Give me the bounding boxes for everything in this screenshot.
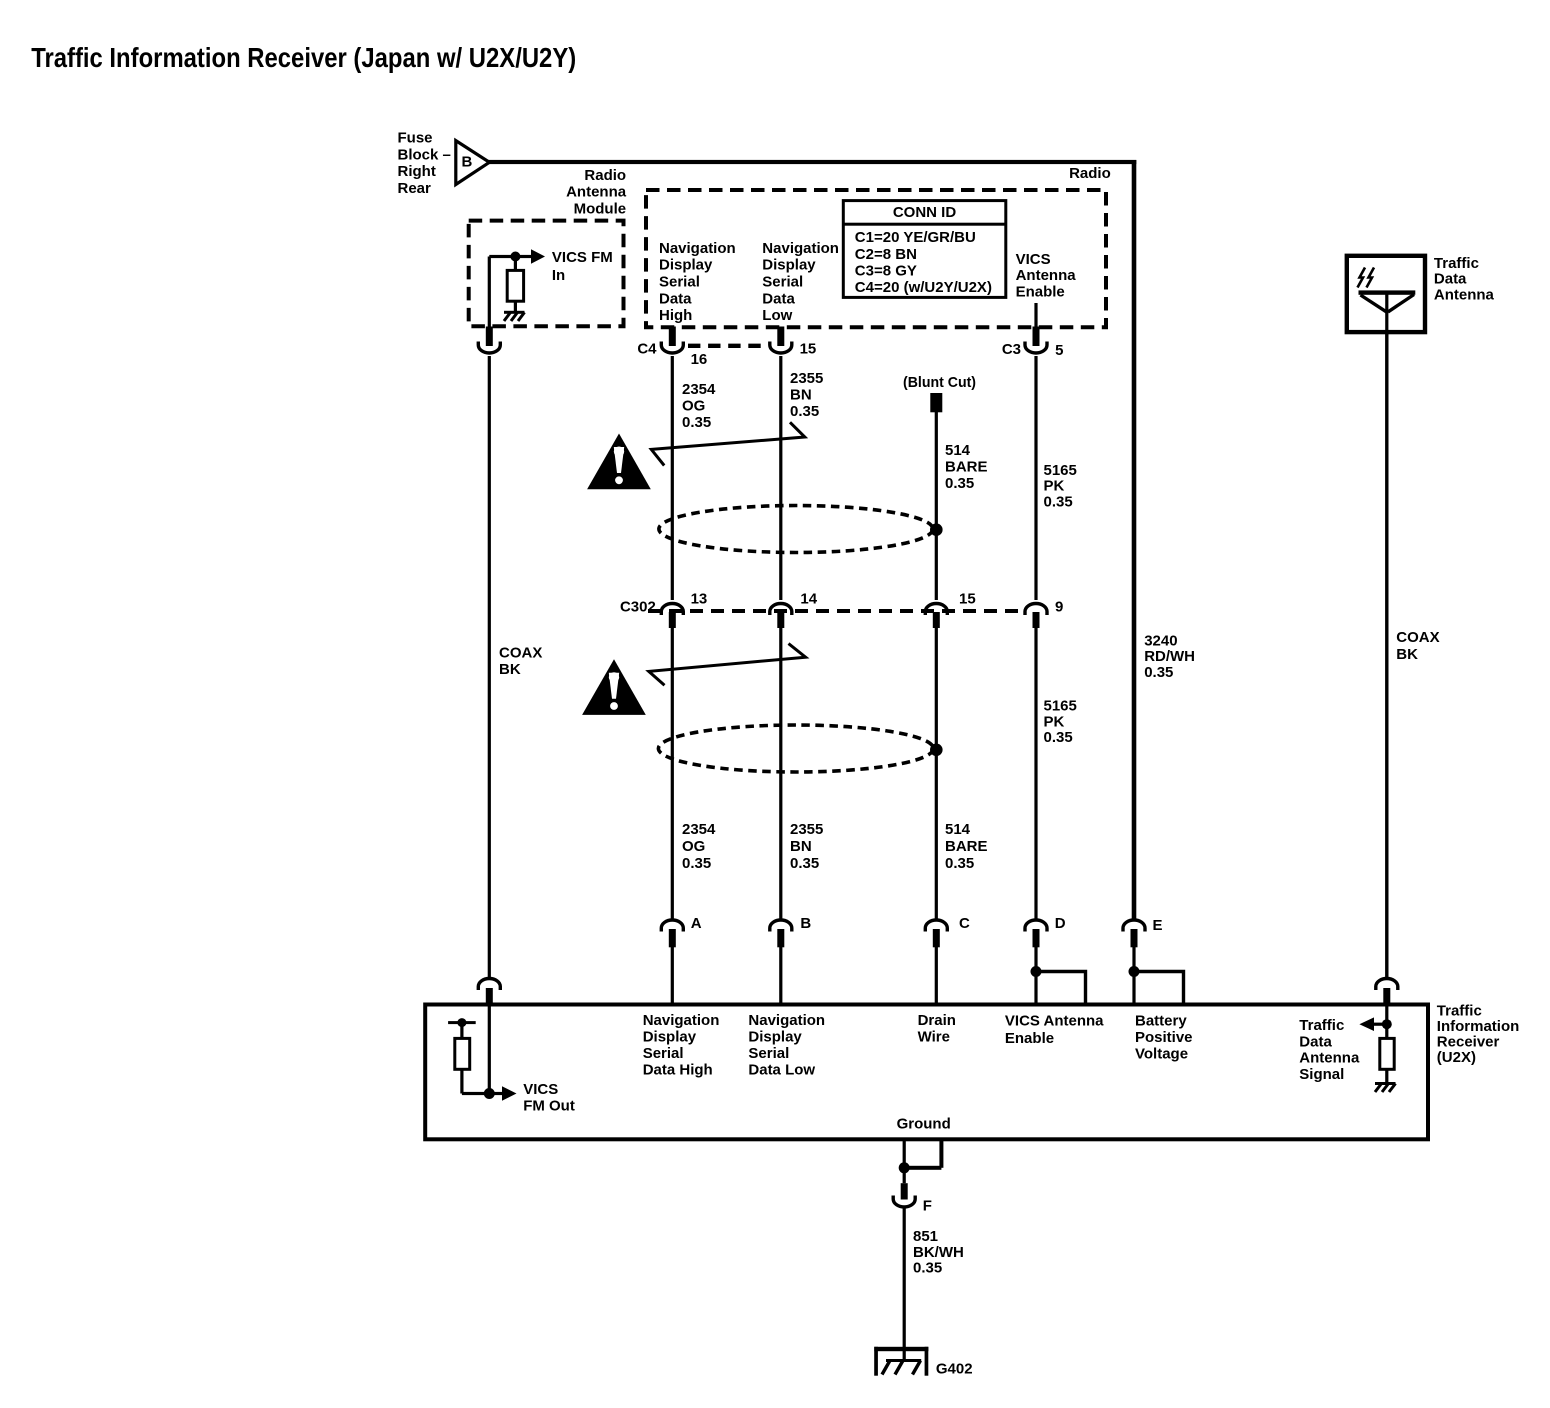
svg-text:BK: BK: [1396, 646, 1418, 663]
svg-text:Enable: Enable: [1005, 1030, 1054, 1047]
svg-text:VICS Antenna: VICS Antenna: [1005, 1013, 1104, 1030]
svg-text:Data: Data: [1299, 1033, 1332, 1050]
svg-text:Display: Display: [762, 257, 816, 274]
svg-text:Radio: Radio: [1069, 165, 1111, 182]
svg-text:Serial: Serial: [659, 274, 700, 291]
svg-text:Antenna: Antenna: [566, 184, 627, 201]
svg-text:15: 15: [959, 590, 976, 607]
svg-text:RD/WH: RD/WH: [1144, 648, 1195, 665]
svg-text:COAX: COAX: [1396, 629, 1439, 646]
svg-text:FM Out: FM Out: [523, 1097, 575, 1114]
svg-text:Traffic: Traffic: [1299, 1017, 1344, 1034]
svg-text:(Blunt Cut): (Blunt Cut): [903, 374, 976, 391]
svg-text:Data Low: Data Low: [748, 1062, 815, 1079]
svg-text:Voltage: Voltage: [1135, 1046, 1188, 1063]
svg-text:16: 16: [691, 351, 708, 368]
svg-text:Signal: Signal: [1299, 1066, 1344, 1083]
svg-text:E: E: [1153, 917, 1163, 934]
svg-text:514: 514: [945, 442, 971, 459]
svg-text:2355: 2355: [790, 821, 823, 838]
svg-text:BN: BN: [790, 838, 812, 855]
svg-text:0.35: 0.35: [790, 403, 819, 420]
svg-text:OG: OG: [682, 838, 705, 855]
svg-text:Serial: Serial: [762, 274, 803, 291]
svg-text:14: 14: [800, 590, 817, 607]
svg-text:BARE: BARE: [945, 838, 988, 855]
svg-text:Receiver: Receiver: [1437, 1034, 1500, 1051]
svg-text:Traffic Information Receiver (: Traffic Information Receiver (Japan w/ U…: [31, 42, 576, 73]
svg-text:3240: 3240: [1144, 632, 1177, 649]
svg-text:Right: Right: [398, 163, 436, 180]
svg-text:Traffic: Traffic: [1434, 255, 1479, 272]
svg-text:Block –: Block –: [398, 146, 451, 163]
svg-text:C3: C3: [1002, 341, 1021, 358]
svg-text:Enable: Enable: [1016, 283, 1065, 300]
svg-text:F: F: [923, 1198, 932, 1215]
svg-text:Display: Display: [748, 1029, 802, 1046]
svg-text:Ground: Ground: [897, 1115, 951, 1132]
svg-text:Wire: Wire: [918, 1029, 950, 1046]
svg-text:514: 514: [945, 821, 971, 838]
svg-text:PK: PK: [1044, 478, 1065, 495]
svg-text:Navigation: Navigation: [748, 1012, 825, 1029]
svg-text:Rear: Rear: [398, 180, 432, 197]
svg-text:Antenna: Antenna: [1434, 286, 1495, 303]
svg-text:In: In: [552, 267, 565, 284]
svg-text:Navigation: Navigation: [659, 240, 736, 257]
svg-text:2355: 2355: [790, 370, 823, 387]
svg-text:Module: Module: [574, 201, 627, 218]
svg-text:Traffic: Traffic: [1437, 1002, 1482, 1019]
svg-text:2354: 2354: [682, 381, 716, 398]
svg-text:Positive: Positive: [1135, 1029, 1193, 1046]
svg-text:0.35: 0.35: [1044, 494, 1073, 511]
svg-text:COAX: COAX: [499, 645, 542, 662]
svg-text:D: D: [1055, 915, 1066, 932]
svg-text:C302: C302: [620, 598, 656, 615]
svg-text:CONN ID: CONN ID: [893, 204, 957, 221]
svg-text:0.35: 0.35: [790, 855, 819, 872]
svg-text:Drain: Drain: [918, 1012, 956, 1029]
svg-text:Information: Information: [1437, 1018, 1520, 1035]
svg-text:Fuse: Fuse: [398, 130, 433, 147]
svg-text:Battery: Battery: [1135, 1013, 1187, 1030]
svg-text:0.35: 0.35: [913, 1260, 942, 1277]
svg-text:C: C: [959, 915, 970, 932]
svg-text:A: A: [691, 915, 702, 932]
svg-text:Navigation: Navigation: [643, 1012, 720, 1029]
svg-text:5165: 5165: [1044, 698, 1077, 715]
svg-text:Antenna: Antenna: [1299, 1050, 1360, 1067]
svg-text:Serial: Serial: [748, 1045, 789, 1062]
svg-text:0.35: 0.35: [945, 855, 974, 872]
svg-text:B: B: [800, 915, 811, 932]
svg-text:0.35: 0.35: [1144, 664, 1173, 681]
svg-text:13: 13: [691, 590, 708, 607]
svg-text:BARE: BARE: [945, 458, 988, 475]
svg-text:OG: OG: [682, 397, 705, 414]
svg-text:(U2X): (U2X): [1437, 1049, 1476, 1066]
svg-text:C4=20 (w/U2Y/U2X): C4=20 (w/U2Y/U2X): [855, 279, 992, 296]
svg-text:C3=8 GY: C3=8 GY: [855, 262, 917, 279]
svg-text:VICS FM: VICS FM: [552, 249, 613, 266]
svg-text:Data: Data: [1434, 271, 1467, 288]
svg-text:0.35: 0.35: [1044, 729, 1073, 746]
svg-text:C2=8 BN: C2=8 BN: [855, 246, 917, 263]
svg-text:0.35: 0.35: [682, 414, 711, 431]
svg-text:851: 851: [913, 1228, 938, 1245]
svg-text:5165: 5165: [1044, 462, 1077, 479]
svg-text:9: 9: [1055, 599, 1063, 616]
svg-text:Radio: Radio: [584, 167, 626, 184]
svg-text:Data: Data: [762, 290, 795, 307]
svg-text:2354: 2354: [682, 821, 716, 838]
svg-text:BK: BK: [499, 661, 521, 678]
svg-text:Serial: Serial: [643, 1045, 684, 1062]
svg-text:Antenna: Antenna: [1016, 267, 1077, 284]
svg-text:BN: BN: [790, 386, 812, 403]
svg-text:Display: Display: [659, 257, 713, 274]
svg-text:5: 5: [1055, 342, 1063, 359]
svg-text:BK/WH: BK/WH: [913, 1244, 964, 1261]
svg-text:0.35: 0.35: [682, 855, 711, 872]
svg-text:Navigation: Navigation: [762, 240, 839, 257]
svg-text:Low: Low: [762, 307, 792, 324]
svg-text:15: 15: [800, 340, 817, 357]
svg-text:VICS: VICS: [523, 1081, 558, 1098]
svg-text:Data High: Data High: [643, 1062, 713, 1079]
svg-text:PK: PK: [1044, 713, 1065, 730]
svg-text:High: High: [659, 307, 692, 324]
svg-text:Data: Data: [659, 290, 692, 307]
svg-text:C4: C4: [637, 340, 657, 357]
svg-text:C1=20 YE/GR/BU: C1=20 YE/GR/BU: [855, 229, 976, 246]
svg-text:B: B: [462, 154, 473, 171]
svg-text:Display: Display: [643, 1029, 697, 1046]
svg-text:0.35: 0.35: [945, 475, 974, 492]
svg-text:VICS: VICS: [1016, 251, 1051, 268]
svg-text:G402: G402: [936, 1361, 973, 1378]
